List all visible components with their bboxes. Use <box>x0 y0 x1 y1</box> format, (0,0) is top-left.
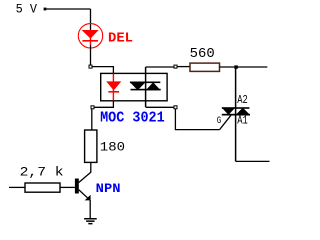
wire to optocoupler LED anode <box>92 67 113 74</box>
pin terminal square opto pin6 bottom <box>174 106 177 109</box>
wire DEL cathode down <box>90 45 92 65</box>
wire 560 to junction <box>220 66 268 68</box>
wire gate run <box>175 109 219 130</box>
wire square to 560 <box>177 66 190 68</box>
wire A1 down and right <box>236 160 270 162</box>
wire 5V horizontal <box>45 8 91 10</box>
wire 180 to collector <box>90 162 92 172</box>
diode internal LED <box>106 74 121 101</box>
svg-text:5 V: 5 V <box>16 2 38 17</box>
svg-text:DEL: DEL <box>108 32 133 47</box>
wire phototriac top to 560 <box>146 66 174 68</box>
svg-text:2,7 k: 2,7 k <box>20 165 64 180</box>
node 5V terminal <box>44 8 47 11</box>
svg-text:G: G <box>217 115 221 127</box>
ground <box>84 218 97 224</box>
LED DEL <box>78 24 102 48</box>
wire 5V down to DEL anode <box>90 9 92 30</box>
wire phototriac bottom <box>146 106 174 108</box>
wire emitter down <box>89 200 91 218</box>
optocoupler U1 MOC3021 box <box>101 73 167 100</box>
svg-text:NPN: NPN <box>96 181 121 196</box>
pin terminal square opto pin6 top <box>174 65 177 68</box>
svg-text:A1: A1 <box>237 114 248 128</box>
pin terminal square cathode <box>91 106 94 109</box>
resistor R 180 <box>85 130 97 162</box>
triac internal phototriac <box>130 67 161 107</box>
pin terminal square anode <box>89 65 92 68</box>
svg-text:MOC 3021: MOC 3021 <box>100 111 165 127</box>
wire square to 180 <box>91 109 93 130</box>
svg-text:560: 560 <box>190 47 215 62</box>
triac TR1 <box>222 107 250 161</box>
wire 2.7k left <box>9 186 25 188</box>
resistor R 560 <box>190 63 220 71</box>
wire gate diagonal <box>220 115 231 129</box>
transistor Q1 NPN <box>75 172 91 200</box>
svg-text:A2: A2 <box>237 93 248 107</box>
junction A2 node <box>234 65 237 68</box>
wire base left <box>60 186 75 188</box>
resistor R 2.7k <box>25 183 60 192</box>
wire junction down to triac A2 <box>235 68 237 107</box>
svg-text:180: 180 <box>100 140 125 155</box>
wire opto cathode down <box>94 101 113 108</box>
